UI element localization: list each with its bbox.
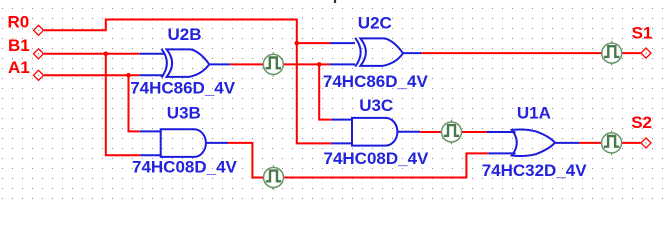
svg-text:U3C: U3C [359,96,393,115]
svg-text:A1: A1 [8,58,30,77]
svg-text:S2: S2 [631,113,652,132]
svg-text:74HC86D_4V: 74HC86D_4V [323,72,429,91]
svg-text:U3B: U3B [167,104,201,123]
svg-text:74HC08D_4V: 74HC08D_4V [324,149,430,168]
svg-text:74HC86D_4V: 74HC86D_4V [130,79,236,98]
svg-text:R0: R0 [8,13,30,32]
svg-text:B1: B1 [8,36,30,55]
svg-text:S1: S1 [632,24,653,43]
svg-text:74HC32D_4V: 74HC32D_4V [482,161,588,180]
svg-text:U2C: U2C [358,14,392,33]
svg-text:U1A: U1A [517,104,551,123]
svg-text:74HC08D_4V: 74HC08D_4V [132,157,238,176]
svg-text:U2B: U2B [168,25,202,44]
